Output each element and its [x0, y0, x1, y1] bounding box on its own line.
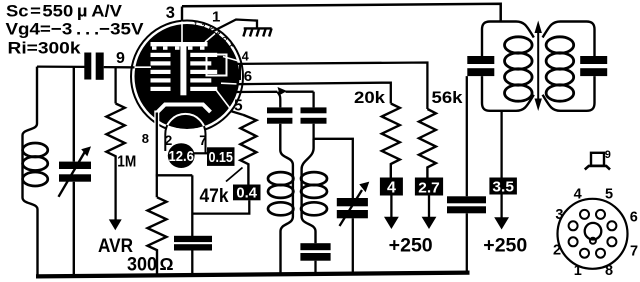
tube grid row 4: [151, 78, 212, 82]
IF transformer right winding box: [543, 22, 595, 57]
tube internal lead to pin 4: [223, 57, 239, 62]
svg-text:9: 9: [605, 149, 611, 161]
wire IF primary decoupling branch: [466, 76, 468, 196]
svg-text:Sc = 550 µ A/V: Sc = 550 µ A/V: [6, 2, 123, 21]
IF transformer left tuning capacitor: [467, 56, 494, 76]
wire bypass cap to ground bus: [191, 251, 193, 277]
svg-text:2: 2: [165, 133, 173, 148]
svg-text:+250: +250: [389, 234, 433, 256]
wire pin 6 line: [237, 83, 391, 104]
svg-text:9: 9: [116, 50, 125, 67]
ground bus: [36, 273, 470, 277]
tube anode bar with teeth: [151, 42, 208, 50]
socket pin hole 5: [596, 210, 605, 219]
wire decoupling cap to ground bus: [466, 213, 468, 274]
svg-text:3: 3: [166, 4, 175, 22]
oscillator variable capacitor arrow: [340, 182, 370, 226]
heater dome legs outside disc: [165, 114, 205, 154]
wire oscillator anode line: [235, 91, 278, 93]
wire tank cap to ground bus: [314, 261, 316, 275]
antenna coil L1 loops: [23, 143, 48, 186]
svg-text:56k: 56k: [432, 89, 464, 107]
svg-text:7: 7: [199, 133, 207, 148]
svg-text:4: 4: [242, 50, 249, 64]
tube type text on rim: [192, 21, 234, 52]
svg-text:0.15: 0.15: [208, 149, 233, 166]
IF transformer left winding loops: [505, 37, 533, 101]
wire cathode node horizontal: [156, 174, 193, 176]
coupling capacitor to oscillator tank: [267, 107, 292, 123]
svg-text:8: 8: [142, 131, 149, 146]
svg-text:20k: 20k: [354, 89, 386, 107]
svg-text:Ri=300k: Ri=300k: [8, 39, 82, 58]
svg-text:47k: 47k: [200, 186, 229, 207]
tube screen connection box: [207, 55, 227, 76]
wire oscillator line right segment: [286, 91, 314, 93]
svg-text:0.4: 0.4: [236, 186, 257, 202]
wire cathode node down to bypass cap: [191, 175, 193, 236]
wire pin 8 cathode lead: [156, 113, 158, 198]
label 47k pointer line: [226, 168, 243, 182]
wire pin6 branch down to cap2: [312, 92, 314, 108]
top cap symbol: [585, 153, 610, 170]
svg-text:Vg4=−3 . . .−35V: Vg4=−3 . . .−35V: [6, 20, 145, 39]
wire grid line right segment to pin 9: [104, 66, 135, 69]
tube internal lead to pin 9: [134, 66, 151, 68]
wire branch to coupling cap C osc tank: [277, 92, 280, 108]
svg-text:8: 8: [605, 263, 613, 279]
variable capacitor C1 arrow: [59, 146, 92, 196]
current label 4 box: [380, 178, 403, 197]
socket pin hole 4: [580, 210, 589, 219]
svg-text:1: 1: [212, 9, 220, 26]
wire tuning cap branch: [73, 67, 75, 162]
tube grid row 2: [151, 61, 212, 65]
wire pin 1 to ground: [213, 20, 258, 32]
svg-text:+250: +250: [483, 234, 527, 256]
IF transformer tuning arrows: [535, 21, 542, 112]
svg-text:2: 2: [553, 243, 561, 259]
svg-text:3.5: 3.5: [492, 179, 514, 196]
resistor 20k: [382, 104, 400, 178]
svg-text:300: 300: [127, 253, 157, 275]
cathode bypass capacitor: [174, 236, 212, 251]
AVR arrow: [109, 158, 122, 231]
svg-text:4: 4: [574, 187, 582, 203]
flow arrow on oscillator line: [278, 87, 288, 95]
wire grid line left segment: [37, 65, 85, 68]
svg-text:2.7: 2.7: [418, 179, 440, 196]
wire junction to osc variable cap: [314, 139, 353, 198]
socket pin hole 2: [569, 237, 578, 246]
wire IF primary bottom to +250: [500, 111, 502, 178]
oscillator feedback capacitor: [301, 107, 327, 123]
grid resistor 1M: [106, 67, 124, 157]
anode supply rail to IF transformer: [182, 4, 501, 22]
heater voltage 12.6 disc: [168, 143, 195, 168]
tube internal lead to pin 1: [205, 34, 215, 43]
current arrow 2.7 to +250: [422, 196, 437, 230]
oscillator grid resistor 47k: [240, 115, 256, 185]
socket pin hole 7: [607, 237, 616, 246]
tube V1 envelope outer ring: [131, 21, 243, 133]
tube pin 8 lead halo: [154, 111, 159, 129]
pin 4/6 stub: [239, 65, 241, 81]
chassis ground symbol: [243, 28, 271, 36]
label 300 ohm: [127, 253, 174, 275]
tube grid row 5: [151, 87, 218, 91]
resistor 56k: [419, 109, 436, 178]
svg-text:3: 3: [555, 207, 563, 223]
heater current 0.15 box: [207, 147, 235, 166]
wire heater link: [194, 152, 208, 154]
tube V1 inner black disc: [135, 24, 240, 129]
svg-text:6: 6: [630, 210, 638, 226]
tube central electrode bar: [180, 42, 186, 95]
svg-text:1M: 1M: [117, 154, 136, 171]
decoupling capacitor to ground bus: [447, 196, 486, 213]
tube internal lead to pin 3: [181, 21, 183, 44]
svg-text:12.6: 12.6: [168, 149, 194, 165]
svg-text:6: 6: [244, 68, 252, 85]
oscillator tank capacitor: [300, 243, 330, 261]
tube grid row 3: [151, 70, 218, 74]
wire antenna branch down: [23, 67, 38, 276]
tube grid row 1: [151, 53, 218, 57]
tube internal lead to pin 5: [217, 91, 231, 110]
socket pin hole 6: [607, 221, 616, 230]
variable tuning capacitor C1 plates: [59, 162, 91, 182]
wire pin 3 to anode rail: [181, 7, 183, 22]
svg-text:7: 7: [630, 244, 638, 260]
svg-text:4: 4: [387, 179, 396, 196]
wire pin 4 screen line: [238, 63, 428, 110]
oscillator transformer right winding loops: [301, 172, 327, 215]
current label 0.4 box: [233, 185, 261, 202]
tube cathode chevron: [158, 105, 211, 113]
oscillator variable capacitor plates: [337, 198, 368, 218]
socket pin hole 8: [596, 249, 605, 258]
wire cap2 down to junction: [312, 124, 314, 140]
heater dome white fill below disc: [165, 114, 205, 154]
wire C1 to ground bus: [73, 182, 75, 276]
current label 2.7 box: [415, 178, 443, 197]
svg-text:5: 5: [605, 187, 613, 203]
heater dome arc inside disc: [165, 114, 205, 154]
socket center key: [585, 223, 602, 244]
oscillator transformer left winding outline: [280, 124, 293, 275]
IF transformer left winding box: [482, 22, 534, 57]
oscillator transformer left winding loops: [268, 172, 293, 215]
wire cathode to 0.4 branch: [192, 200, 249, 213]
cathode resistor 300 ohm: [148, 197, 167, 276]
socket pin hole 3: [569, 221, 578, 230]
current arrow 4 to +250: [384, 196, 399, 230]
IF transformer right winding loops: [546, 37, 574, 101]
socket outline (bottom view): [558, 199, 628, 269]
wire pin 5 to 47k: [231, 111, 244, 115]
svg-text:Ω: Ω: [160, 254, 174, 274]
wire osc var cap to ground bus: [352, 218, 354, 274]
input coupling capacitor: [84, 53, 103, 80]
tube internal lead to pin 6: [221, 82, 238, 85]
socket pin hole 1: [580, 249, 589, 258]
current arrow 3.5 to +250: [494, 195, 509, 230]
svg-text:1: 1: [574, 263, 582, 279]
oscillator transformer right winding outline: [302, 139, 316, 243]
IF transformer right tuning capacitor: [580, 56, 607, 76]
current label 3.5 box: [489, 178, 517, 196]
